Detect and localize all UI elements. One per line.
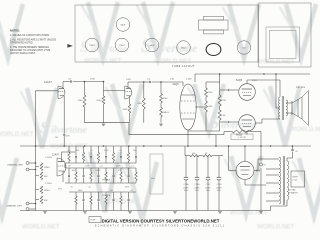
svg-text:100K: 100K xyxy=(123,109,129,111)
tube layout circle 12AX7 a xyxy=(85,38,99,52)
svg-text:100K: 100K xyxy=(137,103,143,105)
svg-text:FUSE: FUSE xyxy=(91,220,97,222)
coupling cap C2 xyxy=(144,81,149,83)
svg-text:2. ALL RESISTORS ARE 1/2 WATT: 2. ALL RESISTORS ARE 1/2 WATT UNLESS xyxy=(10,39,57,42)
B+ top bus xyxy=(195,73,310,75)
resistor chain x206 xyxy=(205,82,207,88)
tone network row3 xyxy=(75,192,77,196)
line cap xyxy=(292,146,294,149)
bus y134 xyxy=(129,134,216,136)
svg-text:SCHEMATIC DIAGRAM OF SILVER: SCHEMATIC DIAGRAM OF SILVERTONE CHASSIS … xyxy=(95,225,225,228)
V2 cathode resistor xyxy=(128,104,131,113)
svg-text:20MFD: 20MFD xyxy=(194,187,200,189)
svg-text:12AX7: 12AX7 xyxy=(44,80,52,84)
svg-text:20MFD: 20MFD xyxy=(183,187,189,189)
svg-text:1.5K: 1.5K xyxy=(221,115,226,117)
svg-text:470K: 470K xyxy=(85,166,90,168)
svg-text:.02: .02 xyxy=(88,187,91,189)
triode V6 xyxy=(57,158,66,176)
svg-text:ilvertone: ilvertone xyxy=(51,125,88,136)
rectifier plate wires xyxy=(229,170,236,172)
svg-text:500K: 500K xyxy=(125,187,130,189)
resistor R8 1MEG xyxy=(160,103,162,108)
speaker layout box xyxy=(259,3,311,67)
svg-text:1MEG: 1MEG xyxy=(44,167,50,169)
svg-text:C10D: C10D xyxy=(217,184,222,186)
tone network columns xyxy=(68,146,70,153)
svg-text:.01: .01 xyxy=(131,166,134,168)
svg-text:OTHERWISE NOTED.: OTHERWISE NOTED. xyxy=(10,43,34,45)
svg-text:680K: 680K xyxy=(78,190,83,192)
upper grounds xyxy=(159,123,163,125)
wire plate V1 xyxy=(63,81,70,83)
V3 plate lead xyxy=(195,106,206,108)
tube layout circle 6X4 xyxy=(237,41,251,55)
output tube V5 xyxy=(239,115,256,132)
svg-text:270K: 270K xyxy=(90,78,96,80)
svg-text:WORLD.NET: WORLD.NET xyxy=(84,58,122,65)
V3 bottom lead xyxy=(187,130,189,146)
svg-text:470K: 470K xyxy=(97,100,103,102)
tube layout circle 6AQ5 b xyxy=(177,41,191,55)
power transformer primary winding xyxy=(279,157,281,204)
triode V1 xyxy=(58,86,65,99)
main mid bus xyxy=(20,145,311,147)
svg-text:0.005: 0.005 xyxy=(186,79,192,81)
AC interlock box xyxy=(291,171,305,187)
svg-text:C10A: C10A xyxy=(184,183,189,186)
electrolytic can layout xyxy=(206,44,221,56)
svg-text:1. VALUES OF CAPACITORS IN MFD: 1. VALUES OF CAPACITORS IN MFD. xyxy=(10,34,50,37)
svg-text:.02: .02 xyxy=(130,190,133,192)
svg-text:S: S xyxy=(40,118,49,137)
tube layout circle 6AQ5 a xyxy=(145,38,159,52)
OT core xyxy=(281,96,283,120)
switch wire xyxy=(286,200,288,206)
output transformer top view xyxy=(199,20,229,30)
svg-text:AND NO SIGNAL INPUT.: AND NO SIGNAL INPUT. xyxy=(10,52,36,55)
svg-text:1M: 1M xyxy=(68,166,71,168)
svg-text:6AQ5: 6AQ5 xyxy=(236,79,243,82)
dropper resistor 1.5K 5W xyxy=(216,134,224,136)
tube layout box xyxy=(75,5,258,62)
resistor R3 220K xyxy=(83,95,86,107)
svg-text:C10C: C10C xyxy=(206,184,211,186)
PT tap wires xyxy=(266,158,279,160)
fuse box near title xyxy=(89,217,101,223)
pentode V3 xyxy=(180,84,196,130)
V6 plate wire xyxy=(62,151,76,153)
ground symbols xyxy=(43,211,47,213)
svg-text:S: S xyxy=(80,39,89,56)
svg-text:TUBE LAYOUT: TUBE LAYOUT xyxy=(172,64,195,68)
svg-text:1MEG: 1MEG xyxy=(163,112,169,114)
svg-text:220K: 220K xyxy=(116,166,121,168)
svg-text:LOCK: LOCK xyxy=(293,180,299,182)
svg-text:ilvertone: ilvertone xyxy=(154,41,198,55)
svg-text:1MEG: 1MEG xyxy=(95,170,101,172)
V5 plate wire xyxy=(246,131,248,134)
OT secondary xyxy=(286,100,288,116)
svg-text:PL: PL xyxy=(264,165,266,167)
resistor R4 470K xyxy=(102,96,105,104)
dropper label box xyxy=(231,134,253,140)
speaker square inner xyxy=(266,27,300,62)
svg-text:VOL.: VOL. xyxy=(58,189,63,191)
svg-text:3. THE TRANSFORMERS TERMINAL: 3. THE TRANSFORMERS TERMINAL xyxy=(10,46,50,49)
svg-text:470K: 470K xyxy=(163,98,169,100)
svg-text:.005: .005 xyxy=(67,150,71,152)
step wire 129 xyxy=(128,123,130,135)
svg-text:220K: 220K xyxy=(75,150,80,152)
svg-text:INTER: INTER xyxy=(293,177,299,179)
wire V1 grid xyxy=(36,90,59,92)
B+ dropper sub-wire xyxy=(184,146,186,156)
svg-text:.05: .05 xyxy=(100,166,103,168)
svg-text:12AX7: 12AX7 xyxy=(119,44,125,47)
svg-text:C10B: C10B xyxy=(195,184,200,186)
svg-text:6AQ5: 6AQ5 xyxy=(173,83,180,86)
svg-text:220K: 220K xyxy=(208,106,214,108)
svg-text:P.M. SPK: P.M. SPK xyxy=(296,87,306,89)
resistor chain x219 xyxy=(219,74,221,95)
rectifier 6X4 xyxy=(236,162,254,180)
wire plate V2 xyxy=(128,81,144,83)
V4 plate wire xyxy=(246,80,248,84)
svg-text:WORLD.NET: WORLD.NET xyxy=(154,58,192,65)
svg-text:NOTES:: NOTES: xyxy=(10,29,20,33)
svg-text:2.2MEG: 2.2MEG xyxy=(45,157,52,159)
svg-text:6X4: 6X4 xyxy=(242,48,245,50)
svg-text:.02: .02 xyxy=(119,150,122,152)
svg-text:1MEG: 1MEG xyxy=(44,190,50,192)
triode V2 xyxy=(125,86,132,99)
svg-text:20MFD: 20MFD xyxy=(216,187,222,189)
svg-text:20MFD: 20MFD xyxy=(205,187,211,189)
wire V1 grid vertical xyxy=(35,91,37,211)
svg-text:6AQ5: 6AQ5 xyxy=(150,44,155,47)
svg-text:6AU6: 6AU6 xyxy=(121,24,126,27)
svg-text:WORLD.NET: WORLD.NET xyxy=(290,126,320,133)
tube layout circle 6AU6 xyxy=(116,18,130,32)
junction C xyxy=(160,81,162,83)
coupling cap to V5 grid xyxy=(220,121,227,123)
tube layout circle 12AX7 b xyxy=(115,38,129,52)
PT core xyxy=(282,156,284,205)
svg-text:6X4: 6X4 xyxy=(256,170,261,173)
V1 cathode wire xyxy=(63,96,65,134)
resistor R7 470K xyxy=(160,82,162,94)
svg-text:CHANNEL ONE: CHANNEL ONE xyxy=(7,164,23,167)
svg-text:60 WATTS: 60 WATTS xyxy=(288,192,298,195)
coupling cap C1 xyxy=(70,80,72,82)
pointer arrow xyxy=(68,44,73,47)
svg-text:117V AC: 117V AC xyxy=(288,189,296,192)
svg-text:S: S xyxy=(210,113,219,132)
junction A xyxy=(84,81,86,83)
svg-text:WORLD.NET: WORLD.NET xyxy=(103,198,141,205)
ground bus segment upper xyxy=(85,122,130,124)
svg-text:1M: 1M xyxy=(55,137,58,139)
PT secondary winding xyxy=(287,161,289,200)
input resistors xyxy=(36,166,40,168)
resistor R6 100K xyxy=(143,82,145,98)
svg-text:6AQ5: 6AQ5 xyxy=(181,47,186,50)
svg-text:.05: .05 xyxy=(70,187,73,189)
coupling cap to V4 grid xyxy=(220,89,227,91)
svg-text:2.2MEG: 2.2MEG xyxy=(45,183,52,185)
pilot lamp branch xyxy=(260,135,262,161)
ground bus xyxy=(20,210,271,212)
V1 cathode bypass cap xyxy=(63,133,65,135)
svg-text:470K: 470K xyxy=(208,92,214,94)
svg-text:TREBLE: TREBLE xyxy=(102,180,111,182)
junction B xyxy=(143,81,145,83)
svg-text:470K: 470K xyxy=(221,100,227,102)
svg-text:INDICATED TO CHASSIS WITH VTVM: INDICATED TO CHASSIS WITH VTVM xyxy=(10,49,50,52)
speaker xyxy=(286,102,292,104)
channel two jacks xyxy=(26,202,29,205)
svg-text:12AX7: 12AX7 xyxy=(89,44,95,47)
svg-text:12AX7: 12AX7 xyxy=(52,154,60,157)
OT center tap B+ xyxy=(276,107,280,109)
svg-text:WORLD.NET: WORLD.NET xyxy=(22,224,60,231)
svg-text:470K: 470K xyxy=(104,150,109,152)
svg-text:220K: 220K xyxy=(78,100,84,102)
svg-text:DIGITAL VERSION COURTESY SILVE: DIGITAL VERSION COURTESY SILVERTONEWORLD… xyxy=(102,218,220,223)
channel one jacks xyxy=(26,162,29,165)
svg-text:100V: 100V xyxy=(126,79,132,81)
shield can rect xyxy=(150,154,163,194)
output transformer primary xyxy=(278,97,280,119)
svg-text:CHANNEL TWO: CHANNEL TWO xyxy=(6,205,22,208)
svg-text:.01: .01 xyxy=(90,150,93,152)
tone horizontals xyxy=(65,162,136,164)
svg-text:.05: .05 xyxy=(295,151,298,153)
svg-text:WORLD.NET: WORLD.NET xyxy=(0,131,34,138)
wire to V2 grid xyxy=(103,81,105,83)
filter caps C10 xyxy=(185,156,187,177)
tone network row2 xyxy=(68,168,70,172)
svg-text:WORLD.NET: WORLD.NET xyxy=(257,224,295,231)
svg-text:1.5K 5W: 1.5K 5W xyxy=(238,137,245,139)
svg-text:250V: 250V xyxy=(252,80,257,82)
svg-text:TREBLE: TREBLE xyxy=(102,195,111,197)
wire bottom join V3 xyxy=(188,130,220,132)
heater wire xyxy=(244,180,246,186)
output tube V4 xyxy=(239,84,256,101)
